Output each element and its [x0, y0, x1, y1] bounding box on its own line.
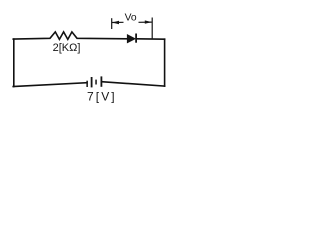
svg-text:7[V]: 7[V] — [87, 89, 117, 103]
svg-text:2[KΩ]: 2[KΩ] — [53, 42, 81, 54]
svg-text:Vo: Vo — [125, 13, 137, 24]
